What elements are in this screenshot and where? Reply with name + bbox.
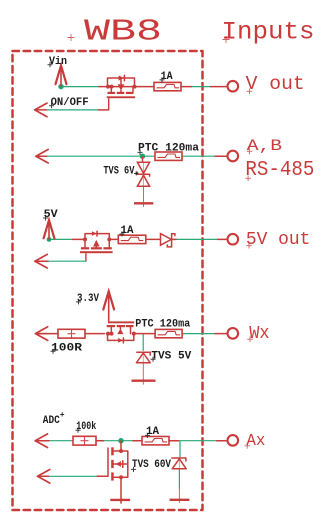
svg-text:5V: 5V: [44, 209, 58, 221]
svg-text:ON/OFF: ON/OFF: [51, 97, 89, 109]
svg-text:Inputs: Inputs: [222, 18, 315, 47]
svg-text:1A: 1A: [146, 426, 159, 438]
svg-text:1A: 1A: [121, 225, 134, 237]
svg-text:PTC 120ma: PTC 120ma: [135, 319, 190, 331]
svg-text:TVS 5V: TVS 5V: [151, 350, 191, 362]
svg-text:5V out: 5V out: [246, 230, 311, 250]
svg-text:1A: 1A: [161, 71, 173, 83]
svg-text:TVS 60V: TVS 60V: [132, 459, 171, 471]
svg-text:Wx: Wx: [249, 324, 269, 344]
svg-text:3.3V: 3.3V: [77, 293, 99, 305]
svg-text:100R: 100R: [51, 342, 82, 354]
svg-text:V out: V out: [246, 73, 305, 95]
svg-text:Ax: Ax: [246, 432, 265, 450]
svg-text:WB8: WB8: [84, 14, 162, 49]
svg-text:+: +: [60, 411, 65, 420]
svg-text:100k: 100k: [76, 421, 96, 433]
svg-text:ADC: ADC: [43, 415, 60, 427]
svg-text:+: +: [134, 169, 139, 179]
svg-text:RS-485: RS-485: [245, 159, 314, 182]
svg-text:PTC 120ma: PTC 120ma: [138, 143, 199, 155]
svg-text:A,B: A,B: [247, 137, 282, 155]
svg-text:TVS 6V: TVS 6V: [103, 166, 134, 178]
svg-text:Vin: Vin: [49, 56, 67, 68]
